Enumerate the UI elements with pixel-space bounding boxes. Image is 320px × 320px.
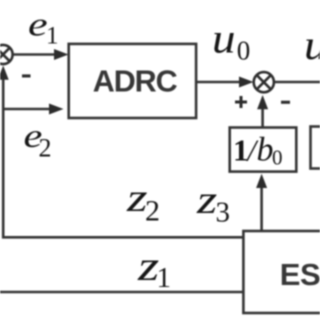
wire: ESO up to 1/b0 [256,174,267,231]
wire u0: ADRC to S2 [196,77,254,88]
block ADRC [69,44,196,118]
summing junction S1 [0,45,13,64]
minus sign at S1 [22,74,31,77]
block partial at right edge [311,127,320,169]
svg-text:u: u [212,15,236,62]
wire e1: S1 to ADRC [13,49,68,60]
label e1 [28,5,59,49]
wire: 1/b0 up to S2 [257,95,268,127]
svg-text:ADRC: ADRC [93,64,178,98]
svg-text:0: 0 [272,146,283,170]
svg-text:1: 1 [157,262,172,294]
svg-text:z: z [196,179,217,223]
label z1 [137,243,171,294]
wire z1: ESO to left edge [0,291,243,294]
wire z2: ESO to left, up to S1 [0,66,243,238]
block ESO [243,231,320,313]
label u (partial at right edge) [304,21,320,68]
svg-text:b: b [257,132,274,169]
minus sign at S2 [281,101,290,104]
wire e2: branch from feedback line to ADRC [4,104,64,115]
svg-text:1: 1 [233,133,249,168]
label z3 [196,179,230,229]
wire u out: S2 to right edge [274,81,320,84]
label z2 [126,176,160,227]
svg-text:1: 1 [46,23,59,50]
svg-text:e: e [28,5,48,43]
summing junction S2 [254,72,274,92]
svg-text:u: u [304,21,320,68]
label u0 [212,15,250,66]
svg-text:3: 3 [216,197,231,229]
svg-text:0: 0 [237,36,251,66]
block 1/b0 [230,128,297,172]
svg-text:ESO: ESO [280,257,320,292]
svg-text:2: 2 [39,134,52,163]
plus sign at S2 [235,96,247,108]
svg-text:2: 2 [145,195,160,228]
label e2 [24,118,52,163]
